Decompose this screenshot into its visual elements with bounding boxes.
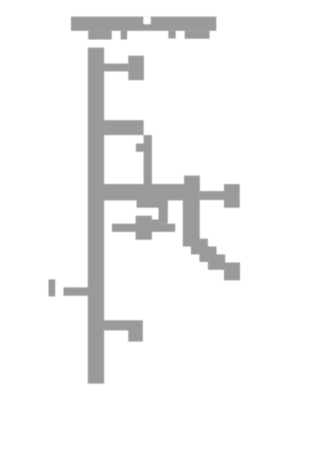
wire: branch to C1 — [104, 64, 128, 72]
wire: horizontal segment — [112, 224, 175, 232]
capacitor C1 — [128, 56, 144, 80]
wire: main vertical bus — [88, 48, 104, 384]
wire: bottom branch — [104, 320, 143, 330]
wire: horizontal bus — [104, 184, 200, 200]
component U1 body — [137, 200, 168, 223]
terminal pad — [224, 263, 240, 281]
wire: left stub — [64, 287, 89, 295]
wire: vertical drop — [183, 176, 200, 247]
wire: branch to R2 — [200, 191, 224, 200]
component block D1 — [128, 330, 143, 341]
wire: vertical segment — [144, 135, 152, 184]
node A — [136, 144, 144, 152]
pin label block — [49, 279, 56, 296]
resistor R2 — [224, 184, 240, 208]
junction patch — [152, 220, 159, 225]
capacitor C2 — [136, 216, 152, 240]
wire: upper branch stub — [104, 120, 144, 135]
title text — [71, 17, 216, 40]
wire: diagonal segment — [191, 239, 225, 270]
